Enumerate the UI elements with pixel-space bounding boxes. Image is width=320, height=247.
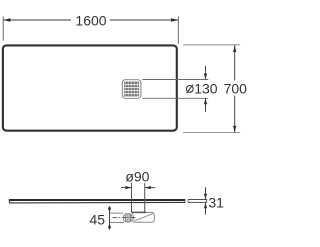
svg-text:1600: 1600	[75, 13, 106, 29]
drain grate square	[122, 80, 141, 99]
dimension 130 extension line top	[143, 79, 209, 81]
svg-text:31: 31	[208, 194, 224, 210]
svg-text:45: 45	[89, 212, 105, 228]
dimension 31 line above	[205, 187, 207, 199]
side view tray left end cap	[9, 199, 11, 203]
plan view tray outline	[3, 45, 177, 130]
dimension o90 right line	[145, 187, 156, 189]
dimension 130 line above	[205, 66, 207, 80]
dimension 700 extension line top	[183, 44, 240, 46]
dimension 45 extension line bottom	[110, 222, 124, 224]
dimension 130 arrow (down)	[204, 74, 207, 80]
dimension 45 arrow (up)	[108, 223, 111, 229]
side view tray right broken segment bottom	[188, 201, 207, 203]
trap body diagonal	[134, 214, 153, 221]
side view tray top surface (thick)	[9, 199, 185, 201]
dimension 45 arrow (down)	[108, 208, 111, 214]
side view tray bottom line	[9, 201, 185, 204]
side view tray right broken segment top	[188, 199, 207, 201]
svg-text:700: 700	[224, 80, 247, 96]
dimension 700 arrow top	[233, 45, 236, 52]
svg-text:130: 130	[194, 80, 218, 96]
dimension 31 arrow (down)	[204, 194, 207, 200]
trap inlet flange (darker top)	[132, 211, 146, 213]
dimension 1600 extension line left	[2, 17, 4, 41]
side view tray right end of left part	[184, 199, 186, 203]
side view tray body fill	[9, 199, 185, 203]
dimension 700 extension line bottom	[183, 131, 240, 133]
drain pipe left wall / extension line	[131, 183, 133, 213]
trap centreline (dash-dot)	[112, 217, 135, 219]
dimension 31 arrow (up)	[204, 203, 207, 209]
dimension 45 line	[109, 206, 111, 230]
dimension 31 line below	[205, 203, 207, 215]
dimension o90 arrow left (points right)	[125, 186, 131, 189]
dimension 130 extension line bottom	[143, 97, 209, 99]
drain pipe right wall / extension line	[144, 183, 146, 213]
dimension 1600 arrow left	[3, 18, 10, 22]
dimension 700 line	[234, 45, 236, 80]
dimension 1600 extension line right	[177, 17, 179, 44]
dimension 1600 line	[3, 19, 71, 21]
trap body	[132, 212, 154, 222]
dimension o90 arrow right (points left)	[145, 186, 151, 189]
trap centre cross tick	[133, 215, 135, 219]
dimension 1600 arrow right	[171, 18, 178, 22]
dimension o90 left line	[121, 187, 132, 189]
dimension 700 arrow bottom	[233, 126, 236, 133]
trap strainer knob	[123, 214, 132, 222]
dimension 130 label	[186, 80, 217, 96]
side view tray right broken segment caps	[187, 199, 189, 203]
dimension 130 line below	[205, 98, 207, 112]
dimension 45 extension line top	[110, 212, 123, 214]
dimension 130 arrow (up)	[204, 98, 207, 104]
svg-text:ø90: ø90	[125, 168, 149, 184]
